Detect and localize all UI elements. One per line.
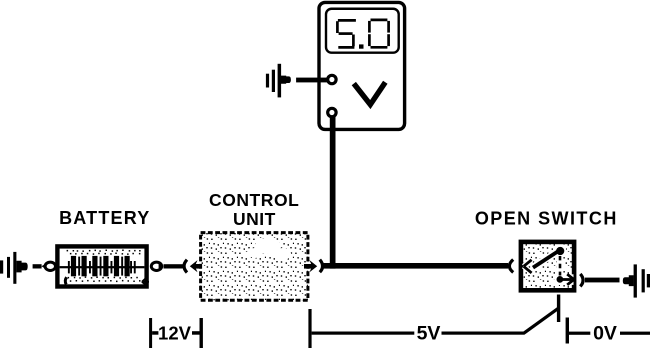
control unit left stem xyxy=(195,264,205,269)
battery center line xyxy=(60,266,145,268)
wire: battery right terminal to control unit connector xyxy=(164,264,183,268)
battery B1 box xyxy=(57,246,146,286)
battery left terminal xyxy=(42,262,56,270)
voltmeter terminal upper xyxy=(328,75,336,83)
switch right cup xyxy=(580,274,583,287)
battery cells xyxy=(68,256,136,276)
svg-text:UNIT: UNIT xyxy=(233,209,276,229)
switch lever white halo xyxy=(524,245,573,284)
voltmeter terminal lower xyxy=(328,108,336,116)
0V left tick xyxy=(566,318,569,344)
control unit right stem xyxy=(304,264,314,269)
wire: ground to voltmeter upper terminal xyxy=(296,78,328,83)
wire: main horizontal from junction to open switch xyxy=(323,263,509,269)
voltmeter M1 body xyxy=(319,2,405,129)
svg-text:OPEN SWITCH: OPEN SWITCH xyxy=(475,208,618,228)
voltmeter V symbol xyxy=(354,82,386,104)
battery stipple dots xyxy=(67,250,141,283)
decimal point xyxy=(359,44,364,48)
control unit left connector cup xyxy=(184,260,187,273)
12V bracket left tick xyxy=(149,318,152,348)
svg-text:12V: 12V xyxy=(158,322,192,343)
5V line right segment xyxy=(442,332,525,335)
control unit right arrow xyxy=(310,260,318,272)
ground (left of battery) xyxy=(0,252,28,284)
ground (right of switch) xyxy=(623,264,650,297)
battery right terminal xyxy=(151,262,162,270)
svg-text:0V: 0V xyxy=(593,322,617,344)
digit 0 xyxy=(369,20,388,47)
wire: open switch right connector to right ground xyxy=(585,278,620,283)
battery corner mark left xyxy=(65,277,66,284)
voltmeter display window xyxy=(326,9,399,53)
svg-text:CONTROL: CONTROL xyxy=(209,190,299,210)
switch lever xyxy=(533,251,559,268)
0V line left segment xyxy=(569,332,590,335)
switch left open arrowhead xyxy=(524,260,532,273)
battery corner mark right (small arrow) xyxy=(142,278,149,286)
switch bottom contact dot xyxy=(557,276,564,283)
12V bracket right tick xyxy=(200,318,203,348)
digit 5 xyxy=(337,20,356,47)
open switch S1 box xyxy=(521,242,574,290)
switch pivot dot top xyxy=(556,247,564,255)
svg-text:5V: 5V xyxy=(417,322,441,344)
ground (left of voltmeter) xyxy=(266,64,291,98)
control unit U1 dashed box with stipple xyxy=(201,233,308,301)
svg-text:BATTERY: BATTERY xyxy=(59,208,150,228)
control unit right cup xyxy=(320,260,323,273)
0V line right segment xyxy=(620,332,650,335)
control unit left arrow xyxy=(190,260,198,272)
control unit white patch xyxy=(255,238,281,254)
5V line left segment xyxy=(312,332,415,335)
5V right tick (below switch) xyxy=(557,295,560,323)
5V bracket left tick xyxy=(308,309,311,348)
wire end cup at switch left xyxy=(509,260,513,273)
switch right arrow to contact xyxy=(563,278,572,281)
5V step diagonal xyxy=(524,308,558,333)
switch dashed travel line xyxy=(559,256,562,276)
wire: left ground to battery left terminal xyxy=(33,264,42,268)
wire: vertical from voltmeter lower terminal down to junction xyxy=(330,114,336,269)
